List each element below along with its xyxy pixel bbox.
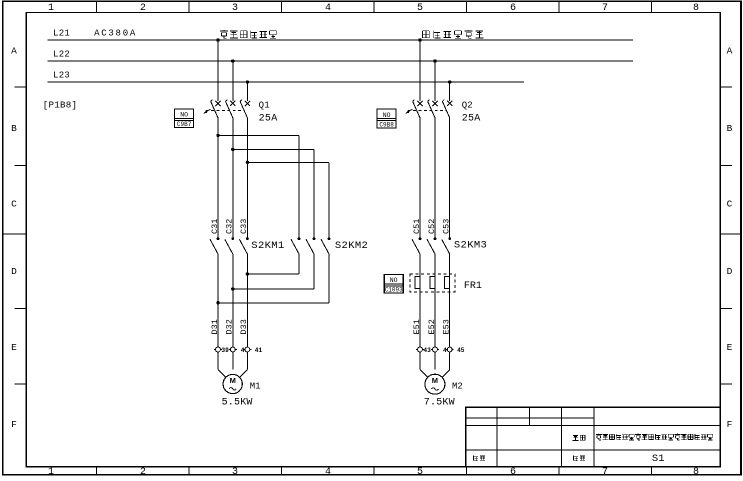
- svg-text:41: 41: [255, 347, 263, 354]
- svg-text:7: 7: [602, 3, 608, 14]
- svg-text:C51: C51: [412, 219, 422, 234]
- svg-text:M: M: [432, 376, 438, 385]
- svg-text:5: 5: [417, 467, 423, 476]
- svg-text:C31: C31: [210, 219, 220, 234]
- svg-text:3: 3: [232, 3, 238, 14]
- svg-text:C9B8: C9B8: [379, 121, 394, 128]
- svg-text:D: D: [11, 266, 17, 277]
- svg-text:C32: C32: [225, 219, 235, 234]
- svg-text:[P1B8]: [P1B8]: [43, 99, 78, 110]
- svg-text:B: B: [727, 123, 733, 134]
- svg-text:C9B7: C9B7: [177, 121, 192, 128]
- svg-text:C: C: [727, 199, 733, 210]
- svg-text:8: 8: [693, 467, 699, 476]
- svg-text:6: 6: [510, 3, 516, 14]
- svg-text:5: 5: [417, 3, 423, 14]
- svg-text:A: A: [11, 46, 17, 57]
- svg-text:1: 1: [48, 467, 54, 476]
- svg-text:M: M: [230, 376, 236, 385]
- svg-text:S2KM1: S2KM1: [251, 240, 284, 252]
- svg-text:D32: D32: [225, 319, 235, 334]
- svg-text:D31: D31: [210, 319, 220, 334]
- svg-text:4: 4: [325, 467, 331, 476]
- svg-text:2: 2: [140, 3, 146, 14]
- svg-text:Q2: Q2: [462, 101, 473, 111]
- svg-text:NO: NO: [180, 112, 188, 119]
- svg-text:25A: 25A: [259, 113, 278, 124]
- svg-text:5.5KW: 5.5KW: [222, 398, 253, 409]
- svg-text:1: 1: [48, 3, 54, 14]
- svg-text:L23: L23: [53, 71, 70, 81]
- svg-text:7: 7: [602, 467, 608, 476]
- svg-text:3: 3: [232, 467, 238, 476]
- svg-text:4: 4: [325, 3, 331, 14]
- svg-text:L21: L21: [53, 29, 70, 39]
- svg-text:C53: C53: [442, 219, 452, 234]
- svg-text:S2KM2: S2KM2: [335, 240, 368, 252]
- svg-text:C52: C52: [427, 219, 437, 234]
- svg-text:E52: E52: [427, 319, 437, 334]
- svg-text:25A: 25A: [462, 113, 481, 124]
- svg-text:M2: M2: [452, 382, 463, 392]
- svg-text:7.5KW: 7.5KW: [424, 398, 455, 409]
- svg-text:E53: E53: [442, 319, 452, 334]
- svg-text:S1: S1: [652, 453, 665, 465]
- svg-text:43: 43: [423, 347, 431, 354]
- svg-text:AC380A: AC380A: [94, 29, 137, 39]
- svg-text:NO: NO: [390, 277, 398, 284]
- svg-text:C1093: C1093: [385, 287, 403, 294]
- svg-text:D33: D33: [239, 319, 249, 334]
- svg-text:FR1: FR1: [464, 281, 482, 292]
- svg-text:39: 39: [221, 347, 229, 354]
- svg-text:C: C: [11, 199, 17, 210]
- svg-text:D: D: [727, 266, 733, 277]
- svg-text:S2KM3: S2KM3: [454, 240, 487, 252]
- svg-text:L22: L22: [53, 50, 70, 60]
- svg-text:2: 2: [140, 467, 146, 476]
- svg-text:A: A: [727, 46, 733, 57]
- svg-text:B: B: [11, 123, 17, 134]
- svg-text:F: F: [11, 419, 17, 430]
- svg-text:8: 8: [693, 3, 699, 14]
- svg-text:Q1: Q1: [259, 101, 270, 111]
- svg-text:6: 6: [510, 467, 516, 476]
- svg-text:45: 45: [457, 347, 465, 354]
- svg-text:C33: C33: [239, 219, 249, 234]
- svg-text:M1: M1: [250, 382, 261, 392]
- svg-text:E51: E51: [412, 319, 422, 334]
- svg-text:E: E: [727, 342, 733, 353]
- svg-text:F: F: [727, 419, 733, 430]
- svg-text:E: E: [11, 342, 17, 353]
- svg-text:NO: NO: [383, 112, 391, 119]
